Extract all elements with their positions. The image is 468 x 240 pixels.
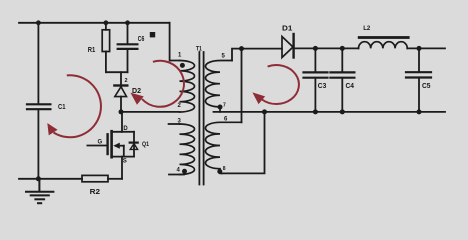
T1 secondary winding A (pins 5-7): [206, 61, 233, 112]
resistor R1: [88, 23, 110, 72]
transistor Q1 (N-MOSFET with body diode): [87, 112, 149, 179]
svg-text:Q1: Q1: [142, 141, 149, 148]
T1 pin 7 phase dot: [218, 105, 223, 110]
T1 pin 4 phase dot: [182, 169, 187, 174]
svg-text:C1: C1: [58, 104, 66, 111]
wire: pin 8 riser to return rail: [222, 112, 265, 173]
wire: pin 5 riser to anode rail: [232, 49, 282, 61]
node: return rail / C3: [313, 109, 318, 114]
T1 primary winding (pins 1-2): [180, 61, 195, 113]
svg-text:C3: C3: [318, 83, 327, 90]
svg-text:D1: D1: [282, 25, 293, 32]
node: top rail / C1 junction: [36, 20, 41, 25]
svg-text:2: 2: [178, 103, 182, 109]
Q1 gate plate: [106, 134, 108, 154]
wire: secondary return rail: [214, 111, 446, 113]
node: output rail / C5: [417, 46, 422, 51]
current loop arrow 2 (clamp loop): [132, 61, 184, 107]
ground: [26, 179, 53, 203]
wire: output top rail (L2 to right end): [407, 47, 445, 49]
wire: top rail corner down to primary pin 1: [170, 23, 180, 61]
Q1 channel plate: [110, 131, 113, 157]
current loop arrow 3 (secondary loop): [254, 65, 299, 104]
current loop arrow 1 (input loop): [48, 75, 101, 137]
node: ground junction: [36, 176, 41, 181]
Q1 gate lead: [87, 145, 106, 147]
mark: small black square right of C6: [150, 32, 155, 37]
Q1 source stub: [113, 156, 134, 158]
svg-text:1: 1: [178, 53, 182, 59]
node: output rail / C3: [313, 46, 318, 51]
wire: R1 / C6 bottom junction bar: [106, 71, 128, 73]
svg-text:7: 7: [223, 103, 226, 109]
capacitor C5: [406, 48, 431, 112]
capacitor C1: [27, 23, 66, 179]
diode D1: [282, 25, 294, 57]
node: pin5/pin6 junction dot: [239, 46, 244, 51]
T1 pin 8 phase dot: [217, 169, 222, 174]
svg-text:C5: C5: [422, 83, 431, 90]
wire: R2 to source riser: [108, 178, 122, 180]
Q1 body diode: [133, 132, 135, 157]
capacitor C4: [330, 48, 354, 112]
diode D2: [114, 72, 141, 112]
svg-text:C4: C4: [346, 83, 355, 90]
wire: drain node to primary pin 2: [121, 111, 180, 113]
svg-text:S: S: [123, 159, 127, 165]
svg-text:L2: L2: [363, 25, 370, 32]
Q1 body arrow: [113, 143, 120, 149]
Q1 top stub to body diode: [122, 131, 134, 133]
node: top rail / R1 junction: [104, 20, 109, 25]
T1 pin 4 stub: [169, 174, 184, 176]
node: return rail / C4: [340, 109, 345, 114]
svg-text:C6: C6: [138, 36, 145, 43]
node: top rail / C6 junction: [125, 20, 130, 25]
capacitor C6: [118, 23, 145, 72]
T1 core: [198, 52, 200, 185]
node: output rail / C4: [340, 46, 345, 51]
resistor R2: [82, 175, 108, 195]
wire: junction down to pin 6: [241, 49, 243, 123]
svg-text:G: G: [98, 140, 103, 146]
T1 aux winding (pins 3-4): [180, 124, 195, 175]
node: drain / D2 / primary pin 2 junction: [119, 109, 124, 114]
svg-text:R2: R2: [90, 189, 101, 196]
svg-text:5: 5: [222, 54, 226, 60]
T1 secondary winding B (pins 6-8): [206, 122, 242, 173]
Q1 drain stub: [113, 112, 122, 132]
wire: input top rail: [19, 22, 170, 24]
transformer T1: [169, 46, 242, 184]
svg-text:8: 8: [223, 166, 226, 172]
T1 pin 3 stub: [169, 123, 180, 125]
inductor L2: [358, 25, 410, 49]
T1 pin 1 phase dot: [180, 63, 185, 68]
capacitor C3: [304, 48, 328, 112]
svg-text:D: D: [123, 126, 128, 132]
wire: output top rail (D1 to L2): [296, 47, 359, 49]
node: pin 8 riser / return rail: [262, 109, 267, 114]
svg-text:R1: R1: [88, 47, 96, 54]
svg-text:4: 4: [177, 168, 181, 174]
wire: bottom rail left of R2: [19, 178, 82, 180]
svg-text:2: 2: [125, 78, 128, 84]
node: return rail / C5: [417, 109, 422, 114]
